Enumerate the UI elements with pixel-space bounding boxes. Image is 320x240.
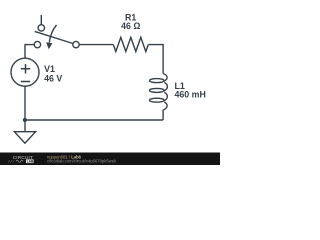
svg-text:460 mH: 460 mH xyxy=(175,90,206,100)
switch SW1 blade xyxy=(35,31,73,43)
svg-text:LAB: LAB xyxy=(27,159,34,163)
svg-text:46 Ω: 46 Ω xyxy=(121,21,140,31)
wire from resistor R1 to top-right corner and down to L1 xyxy=(148,45,163,74)
inductor L1 loop 2 xyxy=(150,88,165,92)
wire from V1 bottom to ground junction xyxy=(24,86,26,120)
inductor L1 coil right-side arcs xyxy=(163,74,167,121)
wire from switch left throw to left rail bend xyxy=(25,45,34,59)
voltage source V1 plus sign xyxy=(21,64,30,73)
inductor L1 loop 1 xyxy=(150,79,165,83)
CircuitLab logo wordmark xyxy=(8,155,34,164)
inductor L1 loop 3 xyxy=(150,98,165,102)
ground symbol triangle xyxy=(14,132,35,144)
voltage source V1 minus sign xyxy=(21,81,30,83)
footer bar xyxy=(0,153,220,166)
voltage source V1 body circle xyxy=(11,58,39,86)
bottom return wire xyxy=(25,119,163,121)
switch SW1 pole terminal circle xyxy=(73,41,79,47)
wire from junction to ground symbol xyxy=(24,120,26,132)
junction node dot xyxy=(23,118,27,122)
resistor R1 zigzag body xyxy=(113,37,148,51)
svg-text:46 V: 46 V xyxy=(44,73,62,83)
switch SW1 top throw stub wire xyxy=(40,15,42,25)
wire from pole to resistor R1 xyxy=(79,44,113,46)
svg-text:circuitlab.com/circuit/c4p6678: circuitlab.com/circuit/c4p6678pk5wek xyxy=(47,158,117,163)
switch SW1 actuation arrow xyxy=(46,25,56,49)
switch SW1 left throw terminal circle xyxy=(34,41,40,47)
switch SW1 top throw terminal circle xyxy=(38,25,44,31)
svg-text:V1: V1 xyxy=(44,64,55,74)
